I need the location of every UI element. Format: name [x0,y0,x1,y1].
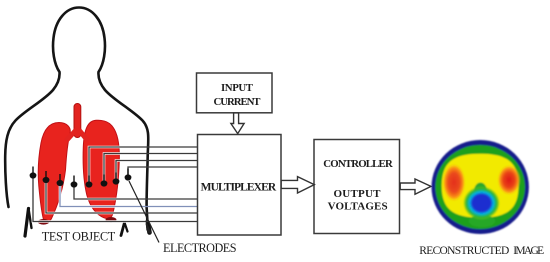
svg-text:IMAGE: IMAGE [513,245,544,257]
svg-text:TEST OBJECT: TEST OBJECT [42,230,116,244]
svg-text:RECONSTRUCTED: RECONSTRUCTED [419,245,509,257]
svg-text:MULTIPLEXER: MULTIPLEXER [201,181,277,193]
svg-text:CONTROLLER: CONTROLLER [323,158,393,170]
svg-text:ELECTRODES: ELECTRODES [163,241,237,255]
svg-text:INPUT: INPUT [221,82,254,94]
svg-text:OUTPUT: OUTPUT [334,188,382,200]
svg-text:CURRENT: CURRENT [214,96,262,108]
svg-text:VOLTAGES: VOLTAGES [328,200,388,212]
